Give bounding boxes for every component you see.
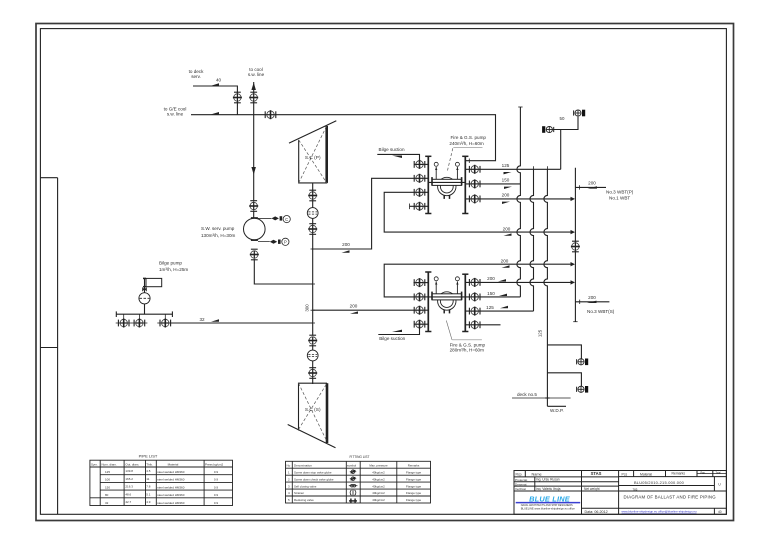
svg-text:4.5: 4.5 <box>146 469 151 473</box>
svg-text:Strainer: Strainer <box>294 491 304 495</box>
valve on crossover <box>265 110 276 119</box>
p2 R row 4 stub <box>465 324 500 326</box>
svg-text:42.7: 42.7 <box>125 500 131 504</box>
S.C.(P) hull diagonal <box>289 121 336 143</box>
svg-text:Pag.: Pag. <box>701 471 706 474</box>
junction tick 310 <box>311 309 316 311</box>
fold column tick mid <box>40 347 57 349</box>
bus4 <box>574 168 576 322</box>
valve <box>469 307 480 316</box>
p2 L valve row3 (200 from column) <box>414 309 428 311</box>
leader dashed <box>448 148 453 170</box>
svg-text:100: 100 <box>105 478 110 482</box>
svg-text:STAS: STAS <box>591 471 602 476</box>
p2 L valve row4 + bilge suction 2 <box>414 323 428 325</box>
strainer in column <box>307 208 318 219</box>
svg-text:32: 32 <box>105 501 109 505</box>
bilge manifold <box>116 313 172 315</box>
gauge P line <box>258 241 270 243</box>
svg-text:deck no.5: deck no.5 <box>517 392 537 397</box>
p1 R row 150 <box>465 183 520 185</box>
svg-text:Reducing valve: Reducing valve <box>294 498 314 502</box>
gauge C line <box>258 217 272 219</box>
fire hydrant valve <box>577 359 589 366</box>
svg-text:130m³/h, H=30m: 130m³/h, H=30m <box>201 233 236 238</box>
svg-text:150: 150 <box>105 485 110 489</box>
valve <box>160 319 171 328</box>
svg-text:Bilge pump: Bilge pump <box>159 261 182 266</box>
svg-text:Name: Name <box>532 473 542 477</box>
wire hand pump drop <box>144 278 146 292</box>
svg-text:216.3: 216.3 <box>125 485 133 489</box>
svg-text:Screw down stop valve globe: Screw down stop valve globe <box>294 470 332 474</box>
p1 R row 125 <box>465 168 560 170</box>
wire hydrant header <box>553 117 579 130</box>
svg-text:Bilge suction: Bilge suction <box>379 336 405 341</box>
wire: 200 line to pump2 v3 <box>313 309 415 311</box>
svg-text:5.1: 5.1 <box>146 492 151 496</box>
wire: bilge main 32 <box>171 322 313 324</box>
svg-text:Flange type: Flange type <box>406 484 421 488</box>
svg-text:Self closing valve: Self closing valve <box>294 484 317 488</box>
S.W. serv pump body <box>244 218 266 240</box>
pump2 body <box>428 277 465 314</box>
valve below SC(P) <box>308 190 317 201</box>
svg-text:Flange type: Flange type <box>406 477 421 481</box>
p1 L valve row 4 stub <box>410 205 429 207</box>
junction dot <box>545 397 549 399</box>
svg-text:symbol: symbol <box>347 463 357 467</box>
branch 1 to hydrant <box>547 345 581 359</box>
junction tick bilge <box>311 322 316 324</box>
svg-text:No: No <box>287 463 291 467</box>
svg-text:150: 150 <box>487 291 495 296</box>
svg-text:Screw down check valve globe: Screw down check valve globe <box>294 477 334 481</box>
valve <box>134 319 145 328</box>
svg-text:C: C <box>285 217 288 222</box>
right manifold <box>464 156 466 213</box>
left manifold <box>427 156 429 213</box>
svg-text:80: 80 <box>105 493 109 497</box>
svg-text:200: 200 <box>588 295 596 300</box>
S.C.(P) dashed X <box>299 140 327 183</box>
svg-text:s.w. line: s.w. line <box>248 72 265 77</box>
svg-text:0.9: 0.9 <box>214 501 219 505</box>
valve <box>469 278 480 287</box>
svg-text:50: 50 <box>560 116 565 121</box>
svg-text:200: 200 <box>503 226 511 231</box>
wire: s.w. pump suction drop <box>253 115 255 202</box>
valve <box>469 194 480 203</box>
svg-text:200: 200 <box>588 181 596 186</box>
svg-text:DIAGRAM OF BALLAST AND FIRE PI: DIAGRAM OF BALLAST AND FIRE PIPING <box>624 495 717 500</box>
svg-text:40kg/cm2: 40kg/cm2 <box>372 470 385 474</box>
svg-text:40: 40 <box>718 510 722 514</box>
svg-text:785: 785 <box>633 487 638 491</box>
svg-text:300: 300 <box>305 304 310 312</box>
svg-text:280m³/h, H=60m: 280m³/h, H=60m <box>450 348 485 353</box>
svg-text:Sym.: Sym. <box>91 462 98 466</box>
up arrow on cool riser <box>251 83 256 91</box>
flow arrow down <box>251 167 256 175</box>
flow arrow on crossover <box>211 112 219 114</box>
bilge valve 2 <box>138 314 140 319</box>
wire: to cool s.w. line riser <box>253 82 255 115</box>
svg-text:www.blueline-shipdesign.eu o: www.blueline-shipdesign.eu office@blueli… <box>622 509 697 513</box>
svg-text:40: 40 <box>216 78 222 83</box>
svg-text:Verificat: Verificat <box>515 487 526 491</box>
fire hydrant valve <box>577 386 589 393</box>
leader thin <box>446 321 452 340</box>
valve below s.w. pump <box>250 249 259 260</box>
svg-text:Material: Material <box>640 472 652 476</box>
bilge valve 1 <box>123 314 125 319</box>
wire pump to manifold <box>144 304 146 314</box>
svg-text:0.9: 0.9 <box>214 470 219 474</box>
svg-text:PIPE LIST: PIPE LIST <box>139 454 158 459</box>
svg-text:7.8: 7.8 <box>146 485 151 489</box>
svg-text:No.3 WBT(S): No.3 WBT(S) <box>587 309 615 314</box>
flow arrow bilge <box>211 319 219 321</box>
svg-text:40kg/cm2: 40kg/cm2 <box>372 498 385 502</box>
svg-text:0.9: 0.9 <box>214 478 219 482</box>
junction tick 249 <box>311 248 316 250</box>
fold column tick top <box>40 177 57 179</box>
S.C.(S) box <box>299 383 328 430</box>
valve on cool riser <box>249 92 258 103</box>
valve <box>414 188 425 197</box>
wire segment <box>312 345 314 384</box>
S.C.(S) dashed X <box>299 383 328 441</box>
svg-text:Max. pressure: Max. pressure <box>369 463 388 467</box>
svg-text:1m³/h, H=25m: 1m³/h, H=25m <box>159 267 188 272</box>
p2 L valve row1 stub <box>414 282 429 284</box>
valve on deck serv riser <box>233 92 242 103</box>
p1 L valve row 1 <box>414 163 428 165</box>
svg-text:Out. diam.: Out. diam. <box>125 462 139 466</box>
svg-text:Remarks: Remarks <box>408 463 420 467</box>
svg-text:200: 200 <box>487 276 495 281</box>
svg-text:125: 125 <box>538 329 543 337</box>
svg-text:S.W. serv. pump: S.W. serv. pump <box>201 226 235 231</box>
deck no.5 line <box>512 397 571 399</box>
svg-text:0.9: 0.9 <box>214 493 219 497</box>
bus1 with hops <box>517 107 521 297</box>
svg-text:40kg/cm2: 40kg/cm2 <box>372 491 385 495</box>
svg-text:150: 150 <box>502 177 510 182</box>
p2 R row 125 <box>465 310 533 312</box>
valve <box>414 202 425 211</box>
valve <box>414 278 425 287</box>
svg-text:125: 125 <box>502 163 510 168</box>
svg-text:Proiectat: Proiectat <box>515 478 527 482</box>
wire: main s.w. crossover line <box>191 115 496 161</box>
strainer <box>307 350 318 361</box>
p1 L valve row 2 <box>414 177 428 179</box>
svg-text:Flange type: Flange type <box>406 491 421 495</box>
svg-text:s.w. line: s.w. line <box>167 112 184 117</box>
wire WBT(P) branch <box>575 186 606 188</box>
flow arrow deck serv <box>211 83 219 85</box>
svg-text:165.2: 165.2 <box>125 477 133 481</box>
svg-text:Desenat: Desenat <box>515 482 527 486</box>
svg-text:steel welded HM360: steel welded HM360 <box>157 478 185 482</box>
svg-text:4.9: 4.9 <box>146 500 151 504</box>
svg-text:W.D.P.: W.D.P. <box>550 408 564 413</box>
p2 L valve row2 + U line over pump <box>414 296 428 298</box>
W.D.P. platform <box>547 405 566 407</box>
svg-text:FITTING LIST: FITTING LIST <box>349 455 369 459</box>
valve <box>118 319 129 328</box>
row end arrows into bus4 <box>571 230 576 234</box>
svg-text:serv.: serv. <box>191 74 201 79</box>
right manifold <box>464 274 466 331</box>
pump1 body <box>428 162 465 199</box>
svg-text:Flange type: Flange type <box>406 498 421 502</box>
branch 2 to hydrant <box>547 373 581 386</box>
svg-text:125: 125 <box>105 470 110 474</box>
svg-text:11: 11 <box>146 477 149 481</box>
hydrant A top <box>574 110 586 117</box>
svg-text:ing. Ursu Rusan: ing. Ursu Rusan <box>536 478 560 482</box>
svg-text:200: 200 <box>350 303 358 308</box>
svg-text:Nom. diam.: Nom. diam. <box>102 462 118 466</box>
S.C.(S) hull diagonal <box>288 425 336 448</box>
svg-text:Fire & G.S. pump: Fire & G.S. pump <box>451 135 487 140</box>
svg-text:steel welded HM360: steel welded HM360 <box>157 501 185 505</box>
bilge pump circle <box>139 293 150 304</box>
hand pump cock <box>142 287 147 292</box>
svg-text:steel welded HM360: steel welded HM360 <box>157 470 185 474</box>
svg-text:200: 200 <box>502 193 510 198</box>
svg-text:S.C (P): S.C (P) <box>305 155 321 161</box>
svg-text:240m³/h, H=60m: 240m³/h, H=60m <box>449 141 484 146</box>
svg-text:Total: Total <box>716 471 722 474</box>
wire: 200 line to pump1 suction riser <box>313 178 415 249</box>
valve on bus4 <box>571 241 580 252</box>
wire valve to pump <box>253 210 255 218</box>
svg-text:S.C (S): S.C (S) <box>305 407 321 413</box>
valve <box>469 165 480 174</box>
S.C.(P) box <box>299 126 327 183</box>
flow arrow <box>350 311 358 313</box>
p1 R row 200 <box>465 198 571 200</box>
valve <box>308 368 317 379</box>
svg-text:Pcs: Pcs <box>622 472 628 476</box>
svg-text:125: 125 <box>486 305 494 310</box>
svg-text:200: 200 <box>342 242 350 247</box>
svg-text:No.3 WBT(P): No.3 WBT(P) <box>606 190 634 195</box>
svg-text:40kg/cm2: 40kg/cm2 <box>372 477 385 481</box>
wire: pump discharge elbow to sea chest column <box>254 259 312 284</box>
junction tick 284 <box>311 283 316 285</box>
svg-text:Data: 06.2012: Data: 06.2012 <box>585 510 608 514</box>
p2 R row 200 <box>465 281 571 283</box>
wire: to deck serv branch <box>193 86 237 115</box>
svg-text:Flange type: Flange type <box>406 470 421 474</box>
svg-text:Denomination: Denomination <box>294 463 312 467</box>
bilge valve 3 <box>164 314 166 319</box>
svg-text:No.1 WBT: No.1 WBT <box>609 196 630 201</box>
svg-text:139.8: 139.8 <box>125 469 133 473</box>
valve <box>414 174 425 183</box>
svg-text:P: P <box>284 240 287 245</box>
svg-text:steel welded HM360: steel welded HM360 <box>157 485 185 489</box>
bus3 with hops <box>544 169 548 406</box>
valve <box>469 292 480 301</box>
left manifold <box>427 272 429 332</box>
flow arrow <box>342 250 350 252</box>
bus2 with hops <box>530 169 534 311</box>
valve above s.w. pump <box>249 201 258 212</box>
fold column line <box>57 178 59 515</box>
svg-text:200: 200 <box>501 258 509 263</box>
hand pump tank rect <box>146 278 162 286</box>
svg-text:Material: Material <box>168 462 179 466</box>
valve <box>414 320 425 329</box>
drawing frame <box>40 29 726 515</box>
bilge suction line p1 <box>377 154 419 164</box>
valve <box>414 306 425 315</box>
svg-text:Press.kg/cm2: Press.kg/cm2 <box>205 462 224 466</box>
svg-text:steel welded HM360: steel welded HM360 <box>157 493 185 497</box>
fitting symbols column glyphs <box>349 470 358 503</box>
valve <box>414 292 425 301</box>
hydrant B left <box>542 126 554 133</box>
valve <box>469 320 480 329</box>
valve above SC(S) <box>308 335 317 346</box>
valve in column <box>308 224 317 235</box>
svg-text:0.9: 0.9 <box>214 485 219 489</box>
valve <box>414 160 425 169</box>
svg-text:48.6: 48.6 <box>125 492 131 496</box>
valve <box>469 179 480 188</box>
svg-text:BLUELINE www.blueline-shipdesi: BLUELINE www.blueline-shipdesign.eu offi… <box>521 506 576 510</box>
svg-text:Net weight: Net weight <box>584 487 600 491</box>
svg-text:40kg/cm2: 40kg/cm2 <box>372 484 385 488</box>
drop from header to 125 row <box>560 130 562 170</box>
svg-text:Remarks: Remarks <box>672 472 686 476</box>
svg-text:ing. Valeriu Itruja: ing. Valeriu Itruja <box>536 487 561 491</box>
svg-text:Bilge suction: Bilge suction <box>379 147 405 152</box>
p2 R row 150 <box>465 296 520 298</box>
svg-text:32: 32 <box>199 317 205 322</box>
wire WBT(S) branch <box>575 301 609 303</box>
wire: sea chest column vertical <box>312 183 314 336</box>
svg-text:BLU05/2010-215.000.000: BLU05/2010-215.000.000 <box>634 480 685 485</box>
svg-text:Rcp.: Rcp. <box>516 472 523 476</box>
p1 L valve row 3 + transfer line down <box>384 192 571 232</box>
svg-text:Thik.: Thik. <box>146 462 153 466</box>
